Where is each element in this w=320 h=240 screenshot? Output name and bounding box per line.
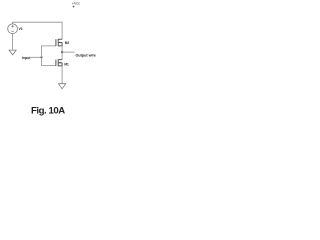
voltage source V1 (8, 24, 18, 34)
node +V tick (73, 6, 75, 8)
svg-text:+Vcc: +Vcc (72, 1, 80, 5)
arrow body M2 (58, 42, 60, 44)
arrow body M1 (58, 62, 60, 64)
ground (left) (9, 50, 16, 55)
node output junction (61, 51, 63, 53)
svg-text:Input: Input (22, 56, 31, 60)
wire M2 source to output node to M1 drain (61, 46, 63, 60)
ground (right) (58, 84, 65, 89)
wire top rail V1 to M2 drain column (13, 22, 63, 39)
wire input lead (30, 56, 42, 58)
wire gate bus (42, 46, 56, 66)
svg-text:V1: V1 (19, 27, 23, 31)
transistor M2 (56, 39, 62, 46)
transistor M1 (56, 59, 62, 66)
svg-text:M2: M2 (65, 41, 70, 45)
wire V1 to ground (12, 34, 14, 50)
svg-text:M1: M1 (64, 63, 69, 67)
svg-text:Output wire: Output wire (76, 54, 97, 58)
wire M1 source to ground (61, 66, 63, 84)
svg-text:Fig. 10A: Fig. 10A (31, 105, 65, 116)
wire output lead (62, 51, 75, 53)
node input junction (40, 56, 42, 58)
